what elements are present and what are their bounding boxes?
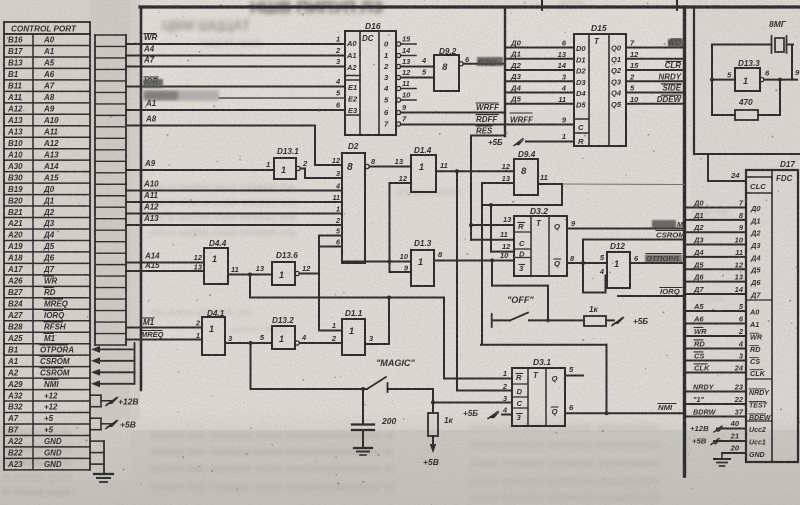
wire A11 to D2 pin11 <box>126 191 342 202</box>
wire IORQ row <box>618 287 684 296</box>
wire row into D1.3 pin10 <box>344 260 411 264</box>
wire D4.1 out to D13.2 <box>225 341 272 345</box>
wire A1 to D16 pin6 (E3) <box>126 99 345 110</box>
gate D4.1 <box>195 309 233 355</box>
wire WR to D16 pin1 <box>126 33 345 44</box>
wire WRFF <box>401 103 505 113</box>
switch MAGIC <box>367 358 433 392</box>
+5V feed <box>90 418 136 430</box>
flip-flop D3.1 <box>502 357 565 426</box>
ground at D17 pin 20 <box>714 453 730 466</box>
switch OFF <box>492 295 584 327</box>
right section border <box>683 7 686 476</box>
gate D12 <box>599 242 639 288</box>
D17 control stubs <box>687 302 766 378</box>
wire V444 to D3.1 pin1 <box>444 298 512 379</box>
wire to D3.2 R pin13 <box>469 215 514 227</box>
D17 data bus stubs <box>687 199 761 300</box>
wire D13.1 out to D2 pin3 <box>300 169 342 179</box>
wire drop to D1.3 pin9 <box>390 262 412 273</box>
resistor 1k (MAGIC) <box>423 413 454 467</box>
gate D9.4 <box>502 150 548 195</box>
gate D1.1 <box>331 309 374 355</box>
wire IOR to D16 pin4 (E1) <box>126 77 345 88</box>
wire +5 to D15 R <box>488 138 574 147</box>
oscillator section frame <box>694 7 800 154</box>
U-link under D9.4 <box>482 184 562 207</box>
wire D1.4 pin12 from junction <box>390 183 412 262</box>
wire D3.2 Qbar to D12 pin5 <box>567 254 607 265</box>
wire D9.4 out row <box>538 183 684 186</box>
FDC chip D17 <box>746 160 798 462</box>
gate D1.4 <box>395 146 448 192</box>
wire loop to D12 pin4 <box>583 276 607 293</box>
wire A14 to D4.4 pin12 <box>126 252 204 263</box>
gate D9.2 <box>401 47 470 91</box>
label 8MHz <box>769 19 787 29</box>
vertical feedback line x482 <box>481 183 483 345</box>
left frame line of main field <box>140 7 143 390</box>
D2 pins 5,6 tie bracket from D13.6 <box>319 236 342 331</box>
wire node to D3.1 C pin3 <box>433 402 512 404</box>
wire RES <box>471 126 505 136</box>
edge connector comb <box>95 35 126 345</box>
wire to D3.2 C pin11 <box>471 230 514 240</box>
MAGIC node wiring <box>251 343 368 391</box>
wire D13.6 out to bracket/V319 <box>299 273 319 275</box>
inverter D13.1 <box>266 147 308 179</box>
wire D1.3 out to D3.2 S pin10 <box>434 259 514 263</box>
wire A15 to D4.4 pin13 <box>126 261 204 271</box>
wire MREQ to D4.1 pin1 <box>126 330 202 340</box>
wire (smudged) to D16 pin5 (E2) <box>143 90 345 101</box>
wire +5 to D3.1 S pin4 <box>463 409 512 419</box>
wire A8 loop to D2 pin 12 <box>126 115 342 166</box>
wire V458 to D3.1 pin2 <box>457 390 512 392</box>
gate D1.3 <box>400 239 443 286</box>
wire D2 out to D1.4 pin13 <box>369 166 411 168</box>
ground at capacitor <box>354 448 372 455</box>
wire A13 to D2 pin2 <box>126 214 342 225</box>
wire D1.1 out loop to D3.1 R <box>365 298 389 345</box>
wire D4.4 out to D13.6 <box>228 273 272 298</box>
GND bracket and ground <box>90 441 113 482</box>
wire D13.2 out to D1.1 pin2 <box>299 342 342 344</box>
D17 power pins <box>690 419 766 459</box>
crystal ZQ <box>763 36 793 53</box>
wire D12 out OTPORA <box>630 254 684 264</box>
vertical to D3.1 D pin2 <box>456 171 458 390</box>
inverter D13.6 <box>256 251 311 285</box>
wire V319 down to D1.1 pin1 <box>319 274 342 331</box>
flip-flop D3.2 <box>514 206 567 276</box>
pin10 label <box>500 251 509 260</box>
D17 status stubs <box>687 383 772 422</box>
gate D4.4 <box>194 239 239 284</box>
gate D2 <box>332 142 376 263</box>
capacitor 200 <box>352 389 396 448</box>
decoder D16 <box>335 21 416 135</box>
+12V feed <box>90 395 139 407</box>
wire A12 to D2 pin1 <box>126 203 342 214</box>
resistor 1k (OFF pull-up) <box>584 305 648 326</box>
data bus vertical <box>504 7 506 136</box>
register D15 <box>505 23 684 146</box>
D3.1 Q output stub <box>565 365 583 376</box>
inverter D13.3 <box>727 59 800 91</box>
wire A10 to D2 pin4 <box>126 180 342 191</box>
resistor 470 <box>712 98 780 120</box>
wire to CLC pin 24 <box>708 154 746 181</box>
oscillator loop wires <box>710 45 792 116</box>
wire x482 to NMI row <box>481 345 607 414</box>
wire D3.1 Qbar to NMI <box>565 403 684 415</box>
wire D9.4 pin13 <box>482 182 514 184</box>
wire CS-ROM from D9.2 to bus <box>463 57 505 68</box>
connector table CONTROL PORT <box>4 22 90 470</box>
inverter D13.2 <box>260 316 307 349</box>
wire A9 to D13.1 <box>126 159 274 170</box>
wire A7 to D16 pin3 <box>126 56 345 67</box>
wire A4 to D16 pin2 <box>126 45 345 56</box>
wire to D3.2 D pin12 <box>491 205 514 252</box>
wire RDFF / WRFF to D15 C <box>401 113 574 125</box>
wire switch to 1k node <box>431 389 435 413</box>
wire D3.2 Q output CSRAM <box>567 219 684 229</box>
wire D1.4 out to D9.4 pin12 <box>436 169 514 173</box>
CSROM pickup vertical <box>582 240 584 293</box>
link D1.3 row to OFF node <box>492 261 548 321</box>
wire M1 to D4.1 pin2 <box>126 318 202 328</box>
RES vertical to D3.2 <box>470 136 472 240</box>
return signal arrows into connector <box>91 343 135 387</box>
wire horizontal y297 <box>250 296 444 300</box>
sheet top border <box>140 0 800 10</box>
wire CSROM row <box>583 230 685 239</box>
